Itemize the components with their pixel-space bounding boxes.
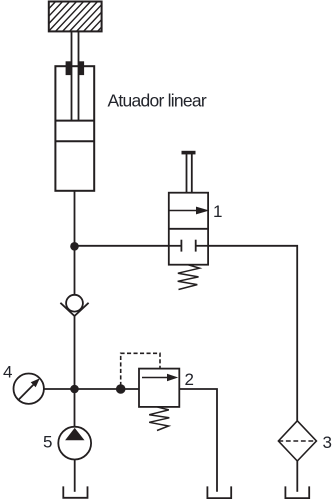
tank 3 xyxy=(285,486,309,498)
tank 2 xyxy=(207,486,231,498)
check valve xyxy=(60,295,88,316)
wire relief valve to tank 2 xyxy=(179,389,217,492)
valve 1 spring xyxy=(178,265,200,290)
pump 5 xyxy=(58,427,91,460)
wire node B to pump xyxy=(74,389,76,427)
svg-text:1: 1 xyxy=(213,202,222,221)
wire cylinder to node A xyxy=(74,191,76,247)
relief valve 2 arrow xyxy=(142,374,178,382)
load mass (hatched block) xyxy=(19,0,127,33)
piston rod xyxy=(72,31,79,120)
relief valve 2 body xyxy=(139,369,179,407)
svg-text:2: 2 xyxy=(185,370,194,389)
valve 1 flow arrow xyxy=(169,207,209,215)
node C junction dot (pilot tap) xyxy=(116,384,126,394)
wire valve 1 to right branch xyxy=(208,246,297,421)
svg-text:5: 5 xyxy=(43,433,52,452)
rod seal blocks xyxy=(66,61,85,75)
pressure gauge 4 xyxy=(14,374,44,404)
wire node A to valve 1 xyxy=(75,245,169,247)
svg-text:Atuador linear: Atuador linear xyxy=(108,91,207,111)
wire check valve to node B xyxy=(74,316,76,389)
node B junction dot xyxy=(70,385,79,394)
relief valve 2 spring xyxy=(149,407,169,431)
filter 3 xyxy=(278,421,316,461)
wire gauge to node B to relief valve xyxy=(44,388,139,390)
valve 1 body xyxy=(169,193,208,265)
valve 1 plunger actuator xyxy=(182,151,196,193)
node A junction dot xyxy=(70,242,79,251)
valve 1 blocked ports xyxy=(169,240,208,252)
wire node A to check valve xyxy=(74,246,76,295)
cylinder (atuador linear) body xyxy=(55,66,94,191)
tank 1 xyxy=(63,486,87,497)
svg-text:3: 3 xyxy=(323,433,332,452)
svg-text:4: 4 xyxy=(3,363,12,382)
wire pump to tank 1 xyxy=(74,460,76,492)
pilot dashed line xyxy=(121,353,160,386)
wire filter to tank 3 xyxy=(296,461,298,492)
